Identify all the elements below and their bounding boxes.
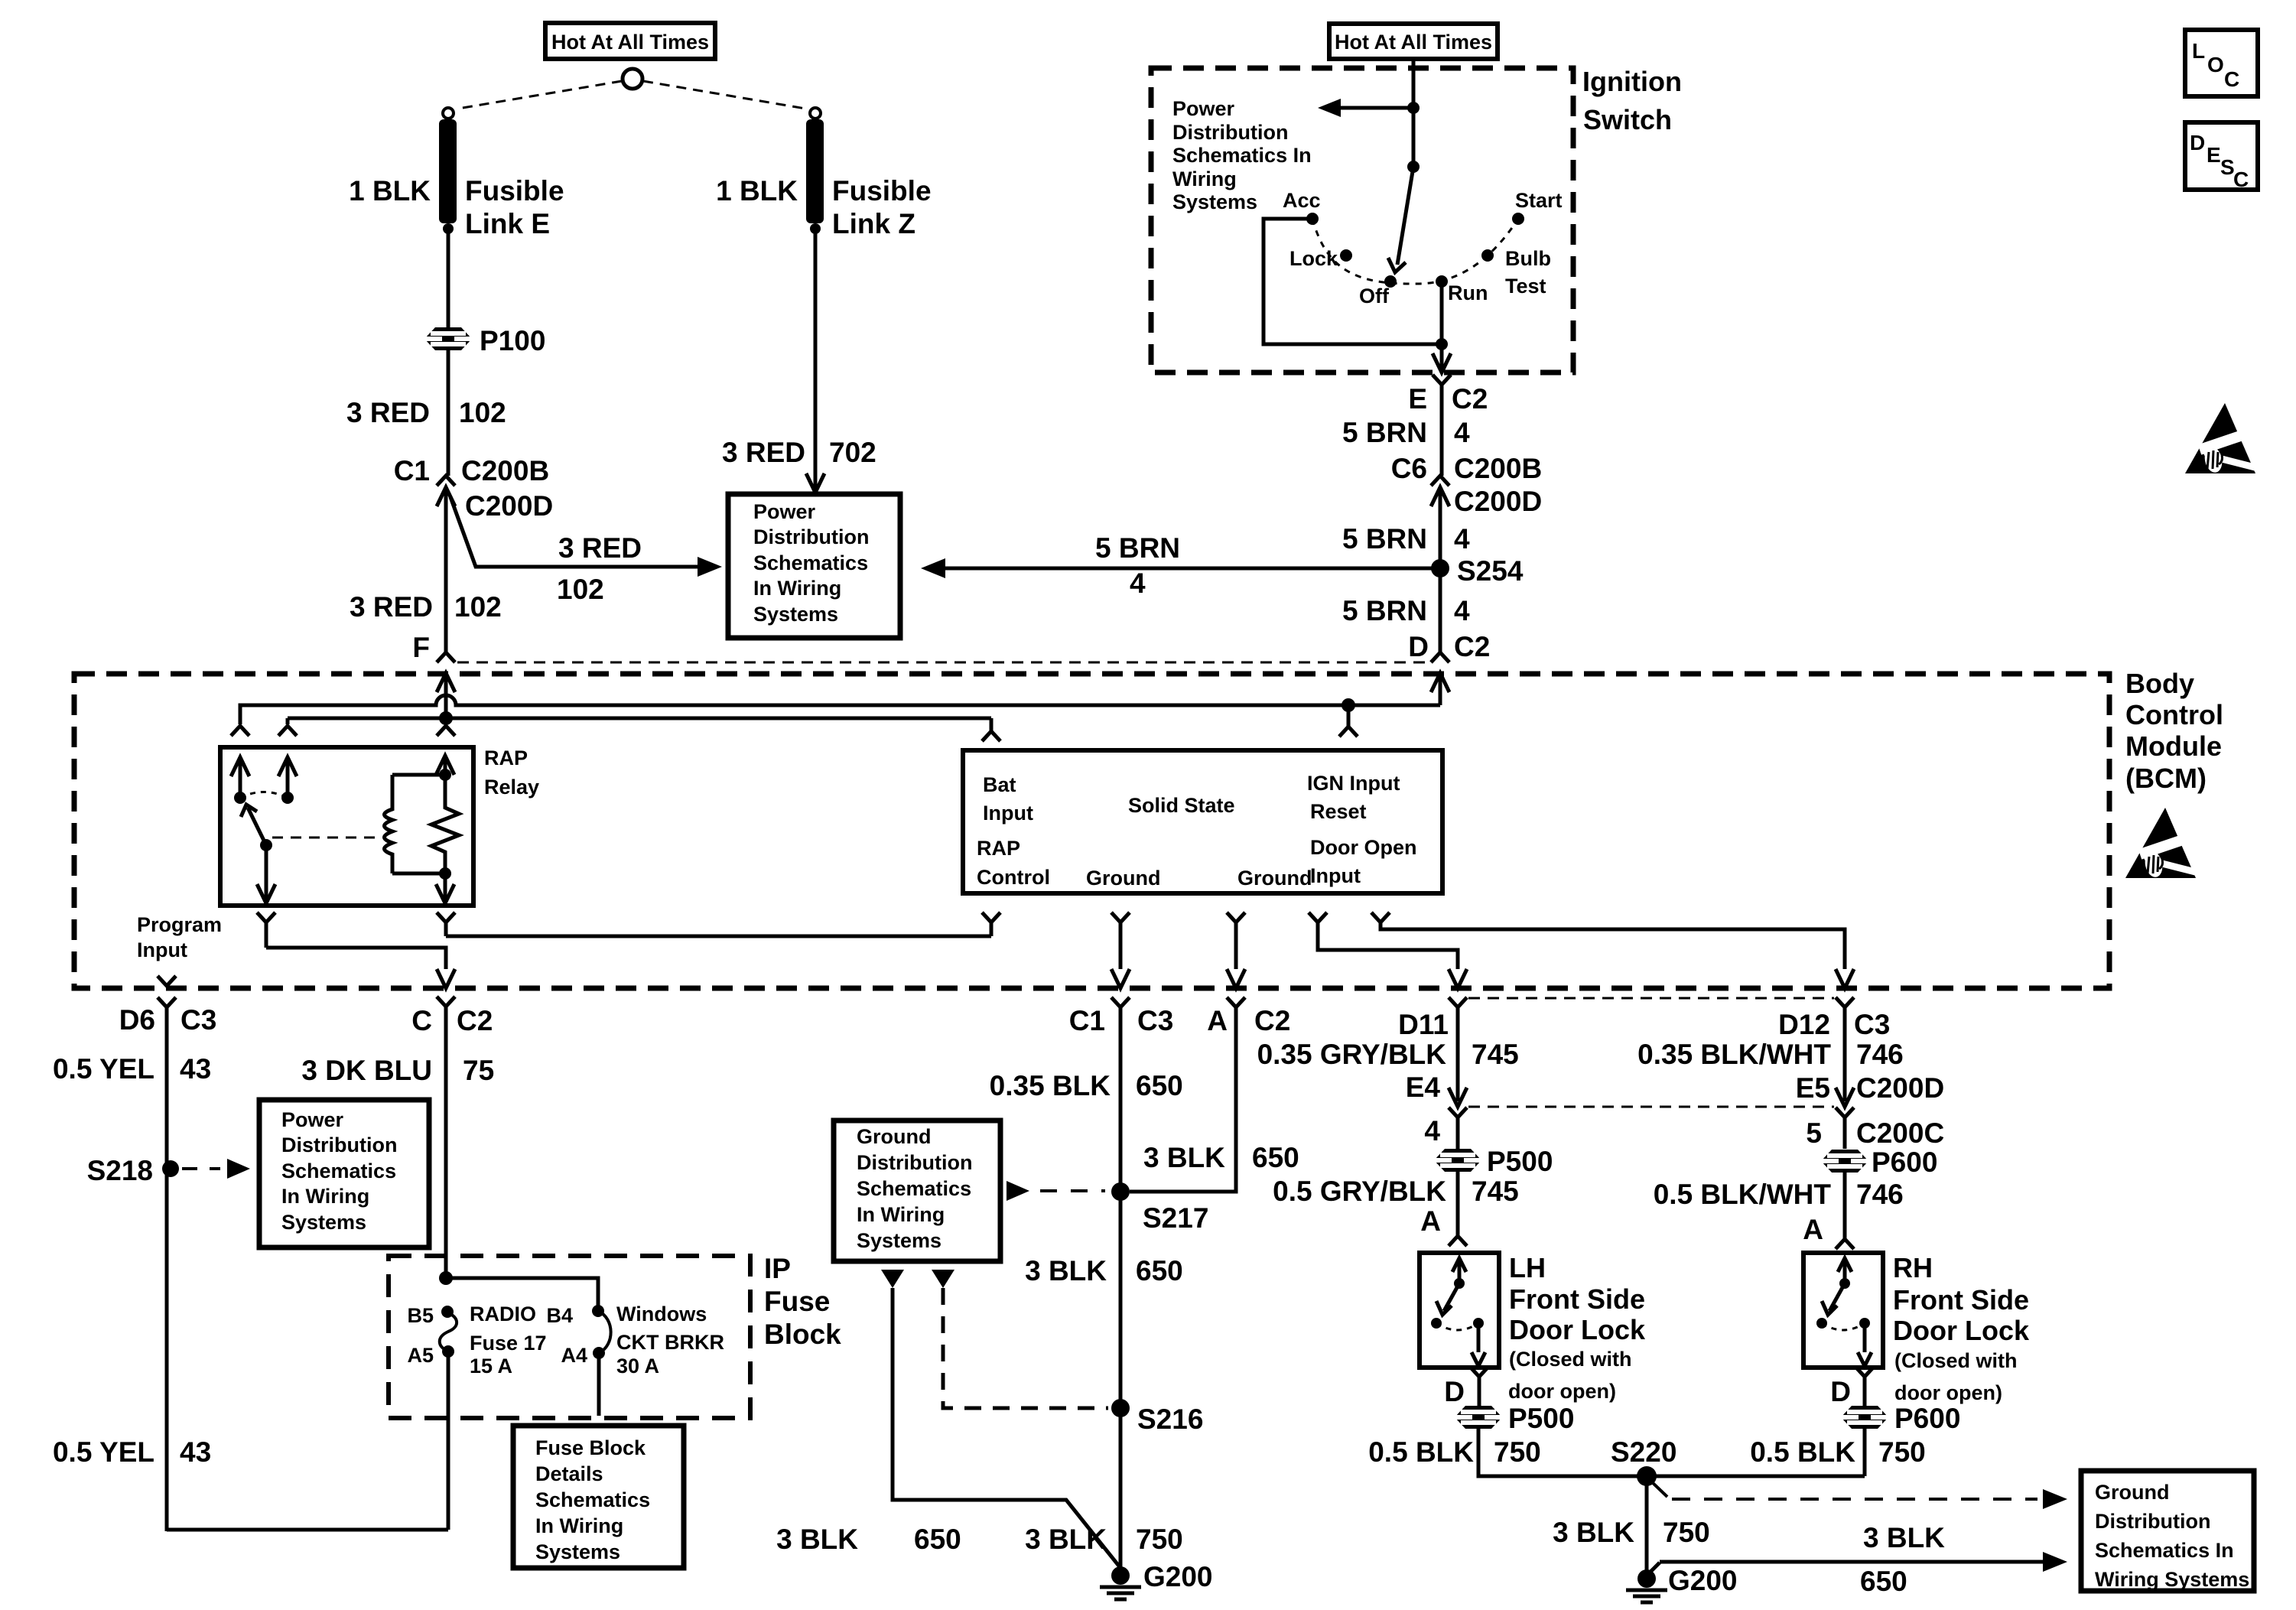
RH door lock dashed arc — [1822, 1323, 1865, 1330]
svg-text:745: 745 — [1472, 1039, 1519, 1070]
fuse terminal dot A5 — [442, 1345, 454, 1358]
svg-text:650: 650 — [1136, 1070, 1183, 1101]
svg-text:C2: C2 — [1454, 631, 1490, 662]
junction dot below fusible link Z — [810, 223, 821, 234]
connector C1/C3 at BCM bottom — [1111, 997, 1130, 1007]
svg-text:C200B: C200B — [461, 455, 549, 486]
svg-text:5 BRN: 5 BRN — [1342, 523, 1427, 555]
bus wire 2 (battery feed to RAP relay pin 2 and Bat Input) — [288, 717, 991, 720]
ignition position dot Run — [1436, 275, 1448, 288]
connector fork A at LH door lock — [1449, 1236, 1467, 1246]
svg-text:Fuse Block: Fuse Block — [535, 1436, 646, 1459]
svg-text:E: E — [1408, 383, 1427, 415]
svg-text:D12: D12 — [1778, 1009, 1830, 1040]
svg-text:IGN Input: IGN Input — [1307, 772, 1400, 795]
fusible link Z body — [806, 119, 824, 223]
svg-text:Input: Input — [137, 938, 187, 961]
LH door lock switch arm — [1444, 1283, 1459, 1311]
relay junction dot coil top — [439, 769, 451, 781]
svg-text:Start: Start — [1515, 189, 1563, 212]
svg-text:RAP: RAP — [484, 746, 528, 769]
ignition switch dashed box — [1151, 68, 1573, 372]
dashed feed wire to fusible link E — [458, 81, 622, 109]
connector fork D below RH door lock — [1855, 1367, 1874, 1377]
svg-text:Link Z: Link Z — [832, 208, 915, 239]
svg-text:75: 75 — [463, 1055, 494, 1086]
svg-text:P600: P600 — [1872, 1147, 1937, 1178]
svg-text:C3: C3 — [1854, 1009, 1890, 1040]
svg-text:43: 43 — [180, 1436, 211, 1468]
svg-text:745: 745 — [1472, 1176, 1519, 1207]
svg-text:C2: C2 — [1254, 1005, 1290, 1036]
svg-text:B4: B4 — [546, 1304, 573, 1327]
relay switch pivot dot — [260, 839, 272, 851]
svg-text:D: D — [1408, 631, 1429, 662]
relay pin 3 wire to box bottom — [444, 873, 447, 903]
connector fork RAP relay pin 3 — [437, 726, 455, 736]
connector fork IGN input reset pin — [1339, 727, 1358, 737]
svg-text:C200C: C200C — [1856, 1117, 1944, 1149]
svg-text:3 RED: 3 RED — [350, 591, 433, 623]
splice ring under hot box 1 — [623, 69, 642, 89]
svg-text:5 BRN: 5 BRN — [1342, 595, 1427, 626]
ESD sensitivity symbol (top right) — [2185, 403, 2255, 473]
junction dot radio feed — [439, 1271, 453, 1285]
svg-text:Switch: Switch — [1583, 104, 1672, 135]
wire relay pin 4 to BCM pin C — [266, 948, 446, 969]
reference arrow fuse block ground 1 — [881, 1270, 904, 1288]
svg-text:Door Open: Door Open — [1310, 836, 1417, 859]
svg-text:door open): door open) — [1508, 1380, 1616, 1403]
branch wire 3 RED to power distribution box — [450, 497, 702, 567]
connector fork below E4 — [1449, 1107, 1467, 1117]
svg-text:Door Lock: Door Lock — [1893, 1315, 2030, 1346]
svg-text:Lock: Lock — [1289, 247, 1338, 270]
svg-text:Door Lock: Door Lock — [1509, 1314, 1646, 1345]
dashed reference wire S220 to ground distribution box — [1650, 1481, 1667, 1497]
RH door lock contact dot left — [1816, 1318, 1827, 1329]
wire IGN input reset drop — [1347, 705, 1351, 727]
svg-text:Body: Body — [2125, 668, 2194, 699]
power distribution schematics box (left) — [259, 1100, 429, 1247]
splice dot S220 — [1637, 1466, 1657, 1486]
fusible link E body — [439, 119, 457, 223]
breaker terminal dot A4 — [593, 1347, 605, 1359]
connector D12 below BCM — [1836, 997, 1854, 1007]
svg-text:Wiring: Wiring — [1172, 168, 1237, 190]
relay switch arm — [248, 808, 266, 845]
svg-text:Schematics In: Schematics In — [2095, 1539, 2234, 1562]
svg-text:In Wiring: In Wiring — [753, 577, 841, 600]
ignition wiper arm — [1397, 167, 1413, 265]
svg-text:G200: G200 — [1143, 1561, 1213, 1592]
arrowhead link Z into power distribution box — [806, 473, 824, 493]
wire S254 to BCM pin D — [1439, 568, 1442, 652]
svg-text:1 BLK: 1 BLK — [349, 175, 431, 207]
svg-text:1 BLK: 1 BLK — [716, 175, 798, 207]
relay contact dot pin 2 — [281, 792, 294, 804]
connector P600 (upper) — [1821, 1150, 1868, 1173]
LH door lock contact dot left — [1431, 1318, 1442, 1329]
svg-text:D: D — [1830, 1376, 1851, 1407]
connector fork door open input pin A — [1309, 912, 1327, 922]
svg-text:Control: Control — [977, 866, 1050, 889]
svg-text:Hot At All Times: Hot At All Times — [551, 31, 709, 54]
ignition position dot Acc — [1306, 213, 1319, 225]
svg-text:3 BLK: 3 BLK — [1863, 1522, 1945, 1553]
IP fuse block dashed box — [389, 1256, 750, 1418]
inline connector C1 C200B/C200D — [437, 476, 455, 486]
hot-at-all-times box 1 — [545, 23, 715, 59]
wire relay pin 3 to RAP control — [446, 935, 991, 938]
svg-text:Run: Run — [1448, 281, 1488, 304]
svg-text:43: 43 — [180, 1053, 211, 1085]
connector D6/C3 at BCM bottom — [158, 997, 176, 1007]
svg-text:0.5 GRY/BLK: 0.5 GRY/BLK — [1273, 1176, 1446, 1207]
svg-text:Ground: Ground — [2095, 1481, 2169, 1504]
svg-text:F: F — [412, 632, 430, 663]
svg-text:0.5 YEL: 0.5 YEL — [53, 1053, 154, 1085]
connector fork door open input pin B — [1371, 912, 1390, 922]
svg-text:C: C — [2233, 168, 2249, 191]
svg-text:Schematics In: Schematics In — [1172, 144, 1312, 167]
ground G200 (right) dot — [1637, 1569, 1656, 1588]
wire G200 to ground distribution box — [1650, 1563, 1660, 1573]
connector fork RAP relay pin 1 — [231, 726, 249, 736]
relay resistor — [431, 775, 459, 873]
svg-text:Block: Block — [764, 1319, 841, 1350]
svg-text:A: A — [1207, 1005, 1228, 1036]
relay coil bottom link — [392, 872, 445, 876]
LOC reference box — [2185, 30, 2258, 96]
svg-text:102: 102 — [454, 591, 502, 623]
connector fork ground pin 2 — [1227, 912, 1245, 922]
junction dot battery feed on bus 2 — [439, 711, 453, 725]
ignition feed arrow to power distribution — [1340, 106, 1413, 110]
ESD sensitivity symbol (BCM) — [2125, 808, 2196, 878]
svg-text:C1: C1 — [1069, 1005, 1105, 1036]
junction dot Run output — [1436, 338, 1448, 350]
connector fork relay pin 3 output — [437, 912, 455, 922]
svg-text:C: C — [411, 1005, 432, 1036]
wire RH door lock down to S220 run — [1863, 1429, 1867, 1476]
svg-text:C: C — [2224, 67, 2239, 91]
svg-text:Schematics: Schematics — [281, 1160, 396, 1182]
wire battery feed through bus 1 hop — [444, 705, 448, 718]
RH door lock contact dot right — [1859, 1318, 1870, 1329]
splice dot S218 — [162, 1160, 179, 1177]
breaker terminal dot B4 — [592, 1305, 604, 1317]
connector fork relay pin 4 output — [257, 912, 275, 922]
svg-text:15 A: 15 A — [470, 1355, 512, 1377]
svg-text:Link E: Link E — [465, 208, 550, 239]
svg-text:A: A — [1803, 1214, 1823, 1245]
svg-text:P100: P100 — [480, 325, 545, 356]
wire breaker A4 down — [597, 1353, 601, 1416]
splice dot S254 — [1431, 559, 1449, 577]
wire P600 to RH door lock — [1843, 1173, 1847, 1239]
svg-text:3 RED: 3 RED — [346, 397, 430, 428]
svg-text:Ground: Ground — [1237, 867, 1312, 890]
svg-text:Test: Test — [1505, 275, 1546, 298]
svg-text:Wiring Systems: Wiring Systems — [2095, 1568, 2249, 1591]
svg-text:S217: S217 — [1143, 1202, 1208, 1234]
svg-text:4: 4 — [1454, 417, 1470, 448]
DESC reference box — [2185, 122, 2258, 190]
RAP relay box — [220, 747, 473, 906]
wire link Z to power distribution box — [814, 229, 818, 478]
ground distribution schematics box (middle) — [834, 1120, 1000, 1261]
svg-text:C200D: C200D — [465, 490, 553, 522]
solid state box — [963, 750, 1442, 893]
svg-text:650: 650 — [1860, 1566, 1907, 1597]
svg-text:Ground: Ground — [857, 1125, 931, 1148]
ignition position dot Start — [1512, 213, 1524, 225]
connector P100 — [424, 327, 472, 350]
svg-text:B5: B5 — [407, 1304, 434, 1327]
svg-text:Control: Control — [2125, 699, 2223, 730]
svg-text:P600: P600 — [1894, 1403, 1960, 1434]
svg-text:P500: P500 — [1508, 1403, 1574, 1434]
thin dashed connector line C3 (D11-D12) — [1468, 997, 1834, 1000]
svg-text:E4: E4 — [1406, 1072, 1441, 1103]
svg-text:Program: Program — [137, 913, 222, 936]
svg-text:Fuse: Fuse — [764, 1286, 830, 1317]
svg-text:D: D — [1444, 1376, 1465, 1407]
svg-text:C3: C3 — [1137, 1005, 1173, 1036]
svg-text:Fusible: Fusible — [465, 175, 564, 207]
ignition wiper pivot dot — [1407, 161, 1420, 173]
svg-text:Schematics: Schematics — [857, 1177, 971, 1200]
svg-text:3 RED: 3 RED — [558, 532, 642, 564]
fuse block details box — [513, 1426, 684, 1568]
connector fork RAP control pin — [982, 912, 1000, 922]
svg-text:(Closed with: (Closed with — [1509, 1348, 1632, 1371]
RH front side door lock box — [1803, 1253, 1883, 1368]
junction dot below fusible link E — [443, 223, 454, 234]
svg-text:Details: Details — [535, 1462, 603, 1485]
splice dot S216 — [1111, 1399, 1130, 1417]
svg-text:702: 702 — [829, 437, 876, 468]
wire P500 to LH door lock — [1456, 1172, 1460, 1236]
svg-text:Front Side: Front Side — [1509, 1283, 1645, 1315]
wire fuse A5 down to yellow run — [447, 1351, 450, 1530]
svg-text:102: 102 — [459, 397, 506, 428]
svg-text:746: 746 — [1856, 1039, 1904, 1070]
svg-text:Systems: Systems — [857, 1229, 941, 1252]
svg-text:Reset: Reset — [1310, 800, 1367, 823]
fusible link Z terminal ring — [810, 108, 821, 119]
svg-text:Front Side: Front Side — [1893, 1284, 2029, 1316]
relay pin 2 internal arrow — [278, 757, 297, 776]
svg-text:Input: Input — [1310, 864, 1361, 887]
svg-text:650: 650 — [1252, 1142, 1299, 1173]
svg-text:A: A — [1420, 1205, 1441, 1237]
svg-text:(Closed with: (Closed with — [1894, 1349, 2018, 1372]
svg-text:3 BLK: 3 BLK — [776, 1524, 858, 1555]
connector fork RAP relay pin 2 — [278, 726, 297, 736]
svg-text:746: 746 — [1856, 1179, 1904, 1210]
ignition feed junction dot — [1407, 102, 1420, 114]
connector D11 below BCM — [1449, 997, 1467, 1007]
svg-text:RAP: RAP — [977, 837, 1020, 860]
svg-text:4: 4 — [1130, 568, 1146, 599]
svg-text:G200: G200 — [1668, 1565, 1738, 1596]
svg-text:Systems: Systems — [1172, 190, 1257, 213]
svg-text:D6: D6 — [119, 1004, 155, 1036]
svg-text:0.35 BLK: 0.35 BLK — [990, 1070, 1111, 1101]
svg-text:Module: Module — [2125, 730, 2222, 762]
ground distribution schematics box (right) — [2081, 1471, 2254, 1591]
RH door lock switch arm — [1829, 1283, 1845, 1311]
svg-text:3 BLK: 3 BLK — [1553, 1517, 1634, 1548]
svg-text:S218: S218 — [87, 1155, 153, 1186]
svg-text:C1: C1 — [394, 455, 430, 486]
svg-text:5 BRN: 5 BRN — [1342, 417, 1427, 448]
svg-text:C200B: C200B — [1454, 453, 1542, 484]
relay pin 1 internal arrow — [231, 757, 249, 776]
svg-text:Power: Power — [753, 500, 816, 523]
svg-text:5: 5 — [1806, 1117, 1822, 1149]
wire Run contact down — [1440, 281, 1444, 344]
svg-text:C2: C2 — [457, 1005, 493, 1036]
svg-text:0.35 BLK/WHT: 0.35 BLK/WHT — [1637, 1039, 1831, 1070]
LH door lock output wire — [1477, 1323, 1481, 1352]
svg-text:750: 750 — [1663, 1517, 1710, 1548]
connector fork D below LH door lock — [1470, 1367, 1488, 1377]
connector C/C2 at BCM bottom — [437, 997, 455, 1007]
wire S254 branch to power distribution box — [942, 567, 1440, 571]
svg-text:650: 650 — [1136, 1255, 1183, 1286]
fusible link E terminal ring — [443, 108, 454, 119]
wire D6 bottom run to radio fuse — [167, 1528, 448, 1532]
svg-text:E: E — [2207, 143, 2221, 167]
ground G200 (middle) symbol — [1100, 1586, 1141, 1589]
svg-text:Bulb: Bulb — [1505, 247, 1551, 270]
svg-text:Power: Power — [1172, 97, 1235, 120]
svg-text:E5: E5 — [1796, 1072, 1830, 1104]
wire C200D to BCM pin F — [444, 487, 448, 652]
svg-text:C2: C2 — [1452, 383, 1488, 415]
ignition rotary dashed arc — [1312, 219, 1518, 284]
svg-text:In Wiring: In Wiring — [857, 1203, 945, 1226]
relay contact dot pin 1 — [234, 792, 246, 804]
svg-text:A4: A4 — [561, 1344, 587, 1367]
svg-text:3 RED: 3 RED — [722, 437, 805, 468]
svg-text:3 BLK: 3 BLK — [1143, 1142, 1225, 1173]
dashed reference arrow S218 — [182, 1167, 220, 1170]
svg-text:Input: Input — [983, 802, 1033, 825]
svg-text:D: D — [2190, 131, 2205, 154]
svg-text:Relay: Relay — [484, 776, 539, 798]
fuse terminal dot B5 — [441, 1306, 454, 1318]
hot-at-all-times box 2 — [1329, 24, 1498, 59]
svg-text:Fusible: Fusible — [832, 175, 932, 207]
connector D at BCM top — [1431, 652, 1449, 662]
svg-text:Hot At All Times: Hot At All Times — [1335, 31, 1492, 54]
svg-text:IP: IP — [764, 1253, 791, 1284]
svg-text:Bat: Bat — [983, 773, 1016, 796]
RH door lock switch arrow up — [1843, 1262, 1847, 1283]
relay pin 4 wire to box bottom — [265, 845, 268, 903]
svg-text:Windows: Windows — [616, 1303, 707, 1325]
svg-text:RH: RH — [1893, 1252, 1933, 1283]
svg-text:Systems: Systems — [753, 603, 838, 626]
wire Acc contact loop — [1263, 219, 1442, 344]
svg-text:Distribution: Distribution — [2095, 1510, 2210, 1533]
svg-text:LH: LH — [1509, 1252, 1546, 1283]
svg-text:Ignition: Ignition — [1582, 66, 1682, 97]
svg-text:C200D: C200D — [1454, 486, 1542, 517]
svg-text:CKT BRKR: CKT BRKR — [616, 1331, 724, 1354]
splice dot S217 — [1111, 1182, 1130, 1201]
connector fork program input pin — [158, 976, 176, 986]
wire LH door lock to S220 — [1478, 1429, 1865, 1476]
svg-text:Solid State: Solid State — [1128, 794, 1235, 817]
connector F at BCM top — [437, 652, 455, 662]
svg-text:C3: C3 — [180, 1004, 216, 1036]
svg-text:RADIO: RADIO — [470, 1303, 536, 1325]
connector P500 (upper) — [1434, 1149, 1481, 1172]
RH door lock switch pivot dot — [1839, 1278, 1850, 1289]
LH door lock contact dot right — [1473, 1318, 1484, 1329]
svg-text:Off: Off — [1359, 285, 1390, 307]
ground G200 (middle) dot — [1111, 1566, 1130, 1585]
wire S220 to G200 — [1645, 1476, 1649, 1579]
ignition switch wiper stem — [1412, 108, 1416, 167]
arrowhead ignition output at box edge — [1433, 353, 1451, 372]
svg-text:Acc: Acc — [1283, 189, 1321, 212]
svg-text:In Wiring: In Wiring — [281, 1185, 369, 1208]
bus wire 1 (ignition to RAP relay pin 1) — [240, 695, 1440, 724]
ignition position dot Bulb Test — [1481, 249, 1494, 262]
wire radio feed to circuit breaker — [446, 1278, 598, 1311]
svg-text:L: L — [2192, 39, 2205, 63]
svg-text:5 BRN: 5 BRN — [1095, 532, 1180, 564]
RH door lock output wire — [1863, 1323, 1867, 1352]
svg-text:S220: S220 — [1611, 1436, 1676, 1468]
svg-text:In Wiring: In Wiring — [535, 1514, 623, 1537]
arrowhead E4 at C200D line — [1449, 1088, 1467, 1107]
wire link E to P100 — [447, 229, 450, 327]
svg-text:0.5 BLK: 0.5 BLK — [1368, 1436, 1474, 1468]
LH door lock dashed arc — [1436, 1323, 1478, 1330]
svg-text:0.35 GRY/BLK: 0.35 GRY/BLK — [1257, 1039, 1447, 1070]
ignition position dot Off — [1384, 275, 1397, 288]
reference arrow fuse block ground 2 (dashed) — [932, 1270, 954, 1288]
radio fuse element — [440, 1312, 457, 1351]
relay junction dot coil bottom — [439, 867, 451, 880]
svg-text:S: S — [2220, 155, 2235, 179]
svg-text:0.5 BLK/WHT: 0.5 BLK/WHT — [1654, 1179, 1832, 1210]
svg-text:0.5 BLK: 0.5 BLK — [1750, 1436, 1855, 1468]
svg-text:(BCM): (BCM) — [2125, 763, 2207, 794]
windows circuit breaker element — [598, 1311, 611, 1353]
svg-text:750: 750 — [1878, 1436, 1926, 1468]
relay contact dashed arc — [240, 792, 288, 798]
svg-text:3 BLK: 3 BLK — [1025, 1524, 1107, 1555]
arrowhead E5 at C200D line — [1836, 1088, 1854, 1107]
wire hot box 2 into ignition switch — [1412, 59, 1416, 108]
relay pin 3 internal arrow — [436, 756, 454, 775]
LH front side door lock box — [1420, 1253, 1499, 1368]
ignition switch output wire — [1440, 344, 1444, 369]
dashed reference arrow to S217 — [1007, 1181, 1029, 1201]
ground G200 (right) symbol — [1626, 1589, 1667, 1592]
connector E/C2 below ignition switch — [1433, 375, 1451, 385]
svg-text:3 BLK: 3 BLK — [1025, 1255, 1107, 1286]
svg-text:A5: A5 — [407, 1344, 434, 1367]
